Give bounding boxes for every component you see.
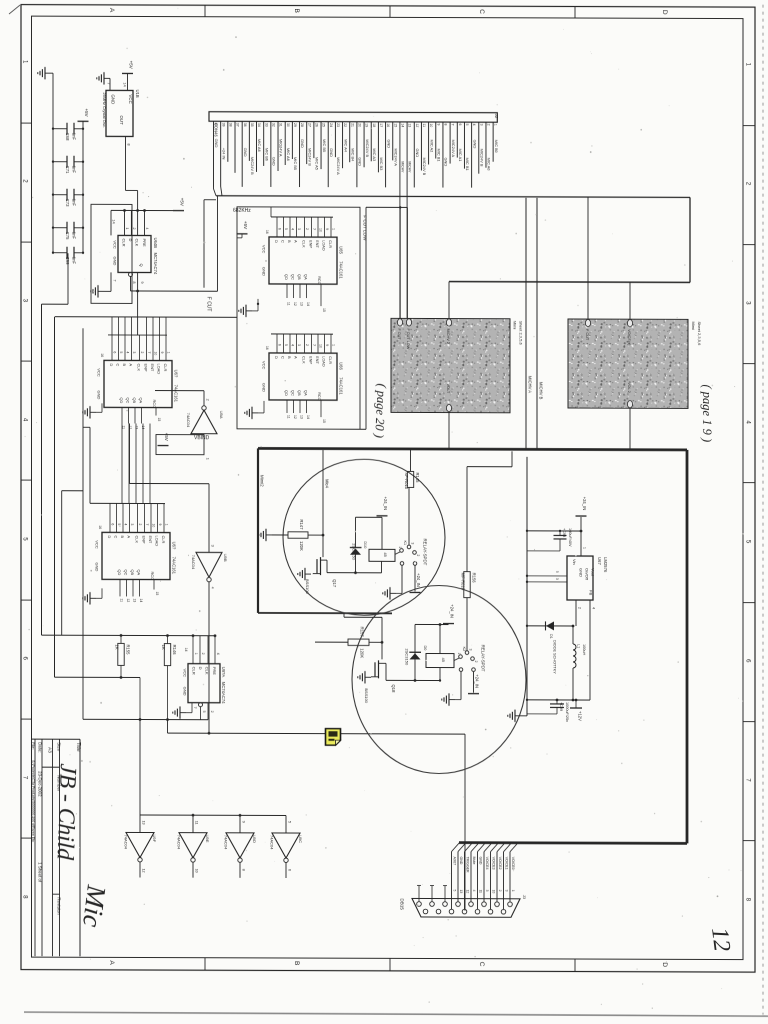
wire R155 to bus719 [139,677,141,719]
svg-text:MIC A6: MIC A6 [257,139,262,152]
svg-text:+5V: +5V [128,61,133,69]
wire MICHV A vertical [525,198,527,449]
svg-text:ENT: ENT [148,536,153,544]
svg-text:1nF: 1nF [72,232,77,240]
svg-text:14: 14 [139,598,143,602]
svg-text:11: 11 [479,890,483,894]
svg-text:4: 4 [145,228,149,230]
svg-text:R157: R157 [360,627,365,638]
svg-text:74AC161: 74AC161 [172,557,177,575]
svg-text:4: 4 [125,351,129,353]
svg-text:7: 7 [193,707,197,709]
svg-text:CLR: CLR [192,667,197,675]
svg-text:C99: C99 [65,257,70,265]
svg-text:GND: GND [214,139,219,148]
svg-text:RCO: RCO [317,392,322,401]
svg-text:2SC3150: 2SC3150 [351,543,356,560]
capacitor C75 1nF [53,227,67,229]
ground for counter U66 [252,412,258,414]
svg-text:8: 8 [127,143,131,145]
svg-text:RELAY-SPDT: RELAY-SPDT [480,645,485,672]
svg-text:C75: C75 [65,232,70,240]
svg-text:1: 1 [206,458,210,460]
svg-text:VOICE0: VOICE0 [511,857,515,870]
power +24_IN relay2 contact [468,693,479,695]
svg-text:5: 5 [287,821,291,823]
svg-text:( page 1 9 ): ( page 1 9 ) [700,384,714,442]
svg-text:20: 20 [358,123,362,127]
svg-text:3: 3 [469,649,473,651]
wire junction row y635 [42,634,216,637]
svg-text:14: 14 [306,415,310,419]
power +5V capacitor rail [78,120,89,122]
svg-text:U9F: U9F [152,835,157,843]
svg-text:14: 14 [112,219,116,223]
svg-text:GND: GND [272,157,277,166]
svg-text:B: B [120,535,125,538]
svg-text:5: 5 [119,351,123,353]
ground for relay2 contact [449,699,455,701]
flip-flop U64B MC74AC74 [118,235,151,272]
svg-text:7: 7 [113,279,117,281]
connector J2 wire pin40 diagonal [213,187,215,189]
svg-text:VOICE(s): VOICE(s) [627,329,631,346]
svg-text:7: 7 [451,124,455,126]
svg-text:2: 2 [201,653,205,655]
svg-text:+C98: +C98 [562,528,566,537]
svg-text:22: 22 [343,123,347,127]
power +5V for divider cluster [237,233,248,235]
svg-text:B: B [287,356,292,359]
svg-text:16: 16 [386,123,390,127]
capacitor C98 100uF/40V [559,531,561,536]
svg-text:4: 4 [472,124,476,126]
svg-text:1000uF/25v: 1000uF/25v [565,702,569,722]
U67 output pins [575,600,577,626]
svg-text:A: A [128,363,133,366]
svg-text:7: 7 [312,228,316,230]
counter U65 74AC161 box [269,237,337,284]
svg-text:GND: GND [262,267,267,276]
svg-text:BSS100: BSS100 [305,579,310,594]
svg-text:GND: GND [243,148,248,157]
svg-text:VCC: VCC [97,368,102,377]
svg-text:GND: GND [300,139,305,148]
svg-text:7: 7 [107,82,111,84]
svg-text:QA: QA [139,397,144,403]
svg-text:MIC A2: MIC A2 [429,139,434,152]
svg-text:2: 2 [305,228,309,230]
svg-text:B: B [287,240,292,243]
title block column lines [59,739,61,956]
ground for U9A2 [180,712,186,714]
svg-text:VCC: VCC [128,94,133,103]
ground for U1B [104,77,110,79]
svg-text:9: 9 [325,228,329,230]
svg-text:2: 2 [138,523,142,525]
svg-text:10: 10 [492,890,496,894]
sheet symbol block left (page 20) [391,318,510,412]
svg-text:4: 4 [592,607,596,609]
svg-text:Vout: Vout [591,568,596,577]
svg-text:Vin: Vin [572,559,577,565]
svg-text:1K: 1K [161,645,166,650]
svg-text:MIC24V A: MIC24V A [393,148,398,166]
capacitor rail right wire [82,121,84,253]
wire heavy boundary right [686,450,689,843]
svg-text:1: 1 [398,546,402,548]
svg-text:+24 IN: +24 IN [221,148,226,160]
svg-text:10: 10 [429,123,433,127]
svg-text:U9D: U9D [252,835,257,843]
counter U6-4 input junction wire [106,502,165,504]
svg-text:MF-R010: MF-R010 [461,573,466,591]
svg-text:4: 4 [123,523,127,525]
wire heavy boundary bottom-left [258,612,392,614]
svg-text:16: 16 [265,230,269,234]
svg-text:Size: Size [56,742,61,751]
title block divider number/revision [53,893,60,895]
capacitor C71 1nF [53,161,67,163]
svg-text:4: 4 [291,228,295,230]
svg-text:GND: GND [183,687,188,696]
svg-text:32: 32 [271,123,275,127]
svg-text:1: 1 [164,524,168,526]
sheet symbol block right (page 19) [568,319,688,408]
svg-text:3: 3 [130,523,134,525]
svg-text:F CUT LOW: F CUT LOW [363,215,368,241]
svg-text:B: B [122,363,127,366]
svg-text:VOICE3: VOICE3 [492,857,496,870]
svg-text:9: 9 [325,344,329,346]
svg-text:GND: GND [358,157,363,166]
U64B pin 7 ground wire [110,272,112,291]
svg-text:10: 10 [153,352,157,356]
relay K2 contacts [454,658,459,661]
svg-text:1: 1 [511,890,515,892]
svg-text:74AC161: 74AC161 [339,261,344,279]
svg-text:10: 10 [195,869,199,873]
svg-text:ENP: ENP [308,240,313,248]
svg-text:GND: GND [479,857,483,865]
svg-text:QA: QA [304,274,309,280]
wire link rail41 top [42,303,69,305]
svg-text:74AC161: 74AC161 [339,377,344,395]
diode D10 across coil [350,547,362,549]
page bottom shadow line [24,1012,768,1016]
svg-text:1: 1 [125,227,129,229]
resistor R145 XF-R010 [407,471,413,487]
connector J2 CON46 body [209,112,497,123]
svg-text:D: D [107,535,112,538]
svg-text:F CUT: F CUT [206,297,212,312]
svg-text:MIC24V B: MIC24V B [307,148,312,166]
svg-text:MIC B4: MIC B4 [350,148,355,162]
svg-text:4: 4 [472,890,476,892]
svg-text:16: 16 [265,346,269,350]
svg-text:U67: U67 [597,557,602,565]
svg-text:3: 3 [210,545,214,547]
svg-text:+5V: +5V [164,433,169,441]
flip-flop cluster boundary box [91,204,132,303]
wire parallel riser [203,200,205,288]
svg-text:3: 3 [555,578,559,580]
wire heavy boundary left [257,448,259,612]
svg-text:27: 27 [307,123,311,127]
svg-text:8: 8 [132,281,136,283]
zone tick marks top [204,5,206,17]
svg-text:Mic4: Mic4 [325,479,330,489]
ground for supply rail [515,715,521,717]
svg-text:MICHV: MICHV [401,161,405,173]
svg-text:A: A [293,240,298,243]
svg-text:C73: C73 [65,199,70,207]
wire MICHV B vertical [536,198,538,449]
svg-text:ENT: ENT [315,240,320,248]
svg-text:C: C [478,962,485,967]
power +5V for U64B [173,210,184,212]
svg-text:MIC24V B: MIC24V B [479,149,484,167]
DB15 pins bottom row [423,909,428,914]
svg-text:36: 36 [243,123,247,127]
svg-text:Q: Q [139,263,144,266]
svg-text:6: 6 [458,124,462,126]
svg-text:31: 31 [279,123,283,127]
svg-text:MICHV B: MICHV B [539,382,544,400]
svg-text:MIC24V A: MIC24V A [279,139,284,157]
svg-text:Mimi: Mimi [691,321,696,330]
ellipse marker 1 [283,459,445,616]
svg-text:9: 9 [140,281,144,283]
svg-text:U1B: U1B [135,89,140,97]
inverter U9A 74AC04 [191,410,217,434]
svg-text:VCC: VCC [95,540,100,549]
svg-text:DB15: DB15 [399,898,404,910]
svg-text:6: 6 [278,228,282,230]
svg-text:LOAD: LOAD [156,364,161,375]
svg-text:+24_IN: +24_IN [474,674,479,688]
svg-text:R147: R147 [299,519,304,530]
wire ground rail x527 [526,457,528,716]
svg-text:D10: D10 [363,541,367,548]
svg-text:100uF/40V: 100uF/40V [568,528,572,547]
svg-text:C: C [478,9,485,14]
svg-text:+5V: +5V [243,221,248,229]
U67 GND OnOff stubs [527,575,567,577]
wire link to sheet pins [366,206,407,208]
ground for relay1 contact [390,592,396,594]
svg-text:MIC24V B: MIC24V B [250,157,255,175]
svg-text:7: 7 [145,524,149,526]
wire bus y719 [83,718,208,720]
page right edge line [762,5,764,1015]
svg-text:9: 9 [241,821,245,823]
counter U6? 74AC161 box [102,532,170,579]
svg-text:B: B [293,9,300,13]
svg-text:25MHz Crystal Osc.: 25MHz Crystal Osc. [102,92,107,128]
resistor R157 120K [348,639,369,645]
wire x465 vertical to DB15 [464,734,466,911]
wire counter3 QD to U9B [130,482,210,484]
power +5V for U9A [158,445,169,447]
svg-text:GND: GND [329,148,334,157]
counter U6-3 output stubs [121,407,123,423]
svg-text:DIODE SCHOTTKY: DIODE SCHOTTKY [553,640,557,674]
svg-text:Title: Title [75,742,81,752]
svg-text:+5V: +5V [179,198,184,206]
wire relay2 coil bottom [439,668,441,681]
svg-text:9: 9 [160,352,164,354]
svg-text:VOICE1: VOICE1 [505,857,509,870]
svg-text:40: 40 [214,123,218,127]
svg-text:10: 10 [151,524,155,528]
svg-text:9: 9 [436,124,440,126]
svg-text:LOAD: LOAD [154,536,159,547]
svg-text:QA: QA [137,569,142,575]
oscillator U1B 25MHz Crystal Osc [106,90,133,136]
wire bottom inverter bus [139,719,141,815]
svg-text:120K: 120K [299,541,304,551]
svg-text:C: C [113,535,118,538]
svg-text:3: 3 [297,344,301,346]
svg-text:GND: GND [444,158,449,167]
U9A2 pin stubs top [192,636,194,664]
svg-text:6: 6 [288,869,292,871]
svg-text:Mimi: Mimi [513,321,518,330]
svg-text:MICHV A: MICHV A [528,376,533,393]
svg-text:Q17: Q17 [332,579,337,588]
svg-text:74AC04: 74AC04 [224,835,229,850]
svg-text:R155: R155 [126,644,131,655]
svg-text:K1: K1 [403,540,407,545]
svg-text:GND: GND [111,94,116,104]
svg-text:1: 1 [166,352,170,354]
svg-text:XF-R010: XF-R010 [404,472,409,489]
svg-text:19: 19 [365,123,369,127]
capacitor C99 1nF [53,252,67,254]
svg-text:MIC A0: MIC A0 [487,158,492,172]
svg-text:LM2576: LM2576 [603,557,608,573]
wire left rail x54 [54,317,56,678]
svg-text:3: 3 [297,228,301,230]
svg-text:C: C [280,240,285,243]
svg-text:7: 7 [312,344,316,346]
svg-text:D: D [109,363,114,366]
svg-text:QB: QB [132,397,137,403]
svg-text:+5V: +5V [84,108,89,116]
svg-text:4: 4 [211,587,215,589]
svg-text:CLK: CLK [136,363,141,371]
svg-text:10: 10 [319,344,323,348]
DB15 pins top row [417,902,422,907]
svg-text:U9?A: U9?A [221,667,226,678]
relay coil box 2SC3150 [369,549,395,561]
svg-text:2: 2 [305,344,309,346]
svg-text:23: 23 [336,123,340,127]
svg-text:MIC B3: MIC B3 [379,157,384,170]
wire rail x83 [82,328,84,719]
svg-text:C: C [280,356,285,359]
corner fold mark [9,5,20,14]
counter U6-4 output stubs [119,579,121,596]
paper speckle noise [188,555,189,556]
counter U65 input junction wire [271,216,333,218]
svg-text:ENT: ENT [315,356,320,364]
svg-text:D: D [274,240,279,243]
svg-text:16: 16 [100,353,104,357]
svg-text:CLR: CLR [328,240,333,248]
wire F CUT LOW vertical [365,207,367,429]
svg-text:RCO: RCO [152,400,157,409]
diode D1 SCHOTTKY [527,625,573,627]
svg-text:29: 29 [293,123,297,127]
svg-text:13: 13 [408,123,412,127]
svg-text:13: 13 [300,415,304,419]
wire heavy boundary top [258,448,687,449]
svg-text:1: 1 [457,653,461,655]
svg-text:Q18: Q18 [391,684,396,693]
regulator U67 LM2576 [567,556,593,600]
svg-text:J2: J2 [494,114,499,119]
svg-text:MIC B6: MIC B6 [264,148,269,161]
counter U66 output stubs [286,400,288,413]
svg-text:QB: QB [297,390,302,396]
ground for capacitor rail [45,72,51,74]
svg-text:GND: GND [94,562,99,571]
wire clock chain down to counters [137,291,139,335]
svg-text:File:: File: [31,742,36,750]
svg-text:U9C: U9C [298,835,303,843]
svg-text:39: 39 [221,123,225,127]
svg-text:ENP: ENP [143,364,148,372]
wire F CUT net horizontal [131,290,218,292]
svg-text:17: 17 [379,123,383,127]
wire bus y732 to DB15 feed [167,720,169,734]
capacitor C68 1nF [53,128,67,130]
svg-text:MIC A5: MIC A5 [315,157,320,170]
counter U6? 74AC161 box [104,360,172,407]
wire U9A input from RCO [155,390,204,392]
svg-text:14: 14 [123,82,127,86]
svg-text:QC: QC [126,397,131,403]
svg-text:QD: QD [119,397,124,403]
svg-text:MIC B1: MIC B1 [465,158,470,171]
svg-text:15: 15 [393,123,397,127]
ground for counter U6-4 [90,597,96,599]
svg-text:2: 2 [487,124,491,126]
svg-text:LOAD: LOAD [321,356,326,367]
svg-text:MIC B1: MIC B1 [436,149,441,162]
svg-text:U66: U66 [339,362,344,370]
relay2 coil box [426,653,454,667]
svg-text:VOL 2: VOL 2 [627,382,631,393]
inverter U9C 74AC04 [272,833,300,858]
svg-text:JB - Child: JB - Child [52,763,81,861]
svg-text:13: 13 [299,302,303,306]
wire supply bottom [527,699,590,701]
svg-text:14: 14 [401,123,405,127]
svg-text:74AC04: 74AC04 [177,835,182,850]
svg-text:CLK: CLK [301,356,306,364]
svg-text:MICHV 2: MICHV 2 [446,329,450,344]
ground for U64B [98,290,104,292]
svg-text:( page 20 ): ( page 20 ) [372,383,389,438]
power +24_IN relay1 [377,515,388,517]
svg-text:Mute: Mute [472,857,476,865]
svg-text:PRE: PRE [142,238,147,247]
U1B pin 7 wire to ground [109,78,111,90]
svg-text:GND: GND [459,857,463,865]
